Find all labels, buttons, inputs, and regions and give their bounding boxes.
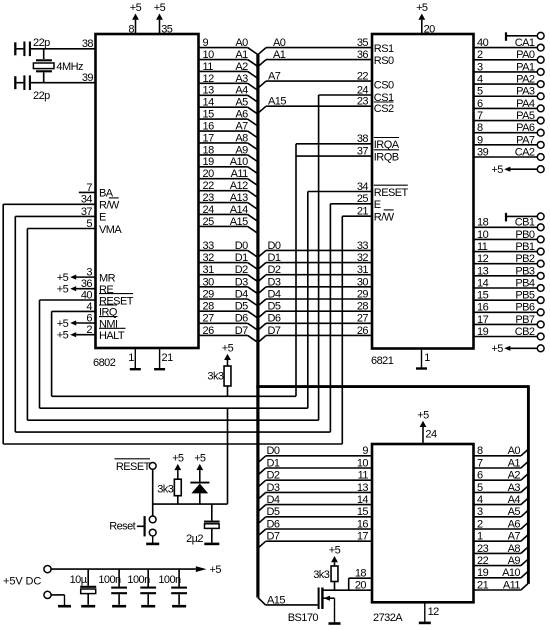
6802 pin 20 A11 <box>199 168 258 186</box>
CA1 input contact stub <box>506 32 544 41</box>
svg-text:A11: A11 <box>503 579 521 591</box>
6802 pin 16 A7 <box>199 120 258 138</box>
CPU 6802 U1 <box>93 34 199 369</box>
6802 pin 12 A3 <box>199 73 258 91</box>
svg-text:+5: +5 <box>222 342 234 354</box>
svg-text:D5: D5 <box>235 301 248 313</box>
2732A pin 2 A6 <box>474 518 528 530</box>
svg-text:8: 8 <box>477 445 483 457</box>
svg-text:+5: +5 <box>329 545 341 557</box>
2732A pin 15 D5 <box>258 506 372 524</box>
6802 pin 24 A14 <box>199 204 258 222</box>
2732A pin 22 A9 <box>474 555 528 567</box>
svg-text:R/W: R/W <box>99 200 120 212</box>
svg-text:PB3: PB3 <box>515 265 535 277</box>
6802 pin 1 ground <box>128 349 141 369</box>
svg-text:6: 6 <box>477 98 483 110</box>
2732A pin 11 D2 <box>258 470 372 488</box>
svg-text:36: 36 <box>357 49 369 61</box>
port B +5 terminal <box>491 343 544 355</box>
2732A pin 17 D7 <box>258 531 372 549</box>
svg-text:1: 1 <box>128 352 134 364</box>
svg-text:36: 36 <box>81 278 93 290</box>
address bus branch to EPROM (thick) <box>256 385 528 388</box>
svg-text:6: 6 <box>477 470 483 482</box>
capacitor C3 2u2 <box>186 504 220 545</box>
svg-text:15: 15 <box>357 506 369 518</box>
svg-text:CS0: CS0 <box>374 79 394 91</box>
svg-text:PA3: PA3 <box>516 86 535 98</box>
6802 pin 36 RE +5 <box>57 278 114 296</box>
svg-text:19: 19 <box>203 156 215 168</box>
svg-text:16: 16 <box>203 120 215 132</box>
+5 rail wire <box>51 568 196 570</box>
svg-text:4: 4 <box>477 74 483 86</box>
6821 pin 25 E <box>330 193 380 211</box>
6802 pin 10 A1 <box>199 49 258 67</box>
6821 pin 38 IRQA <box>296 133 400 151</box>
ground for C4 <box>81 605 95 608</box>
ground for C6 <box>141 605 155 608</box>
ground for C3 <box>204 543 219 546</box>
svg-text:34: 34 <box>81 194 93 206</box>
svg-text:9: 9 <box>477 134 483 146</box>
2732A pin 7 A1 <box>474 457 528 469</box>
pushbutton S1 Reset <box>109 516 156 536</box>
svg-text:27: 27 <box>357 313 369 325</box>
6802 pin 8 Vcc +5 <box>128 2 141 36</box>
svg-text:D1: D1 <box>268 252 281 264</box>
svg-text:3k3: 3k3 <box>157 484 174 496</box>
6802 pin 28 D5 <box>199 301 258 319</box>
svg-text:19: 19 <box>477 567 489 579</box>
svg-text:10: 10 <box>203 49 215 61</box>
svg-text:14: 14 <box>357 494 369 506</box>
6802 pin 33 D0 <box>199 240 258 258</box>
svg-text:26: 26 <box>203 325 215 337</box>
6821 pin 19 CB2 <box>474 326 544 340</box>
svg-text:39: 39 <box>477 146 489 158</box>
2732A pin 9 D0 <box>258 445 372 463</box>
2732A pin 3 A5 <box>474 506 528 518</box>
6821 pin 18 CB1 <box>474 217 544 231</box>
6802 pin 11 A2 <box>199 61 258 79</box>
svg-text:PA5: PA5 <box>516 110 535 122</box>
resistor R4 3k3 EPROM select pull-up <box>313 566 338 582</box>
6821 pin 36 RS0 from A1 <box>258 49 394 67</box>
resistor R2 3k3 IRQ pull-up <box>207 366 231 386</box>
svg-text:MR: MR <box>99 272 116 284</box>
svg-text:BS170: BS170 <box>288 612 319 624</box>
svg-text:D3: D3 <box>267 482 280 494</box>
svg-text:11: 11 <box>477 241 488 253</box>
svg-text:21: 21 <box>477 579 489 591</box>
svg-text:29: 29 <box>203 288 215 300</box>
6821 pin 16 PB6 <box>474 302 544 316</box>
6821 pin 35 RS1 from A0 <box>258 37 394 55</box>
svg-text:31: 31 <box>203 264 215 276</box>
svg-text:30: 30 <box>203 276 215 288</box>
6821 pin 12 PB2 <box>474 253 544 267</box>
svg-text:PB2: PB2 <box>515 253 535 265</box>
svg-text:24: 24 <box>203 204 215 216</box>
svg-text:2732A: 2732A <box>373 612 403 624</box>
transistor T1 BS170 <box>288 588 335 624</box>
6821 pin 29 D4 <box>258 288 372 306</box>
RESET terminal <box>115 459 157 473</box>
6821 pin 40 CA1 <box>474 37 544 51</box>
svg-text:+5: +5 <box>416 2 428 14</box>
+5 for IRQ pull-up <box>227 360 229 366</box>
6821 pin 21 R/W <box>342 206 394 224</box>
svg-text:A2: A2 <box>508 470 521 482</box>
svg-text:PA7: PA7 <box>516 134 535 146</box>
6802 pin 7 BA stub <box>79 182 114 200</box>
svg-text:A15: A15 <box>268 96 286 108</box>
svg-text:RE: RE <box>99 284 113 296</box>
0V terminal ground <box>51 595 71 606</box>
+5 for reset pull-up <box>177 470 179 479</box>
svg-text:PB6: PB6 <box>515 302 535 314</box>
svg-text:100n: 100n <box>127 574 150 586</box>
svg-text:D6: D6 <box>268 313 281 325</box>
svg-text:11: 11 <box>358 470 369 482</box>
6802 pin 4 IRQ <box>52 301 118 319</box>
capacitor C2 22p <box>16 75 50 102</box>
svg-text:4: 4 <box>477 494 483 506</box>
wire resistor to IRQ line <box>227 386 229 396</box>
wire resistor to junction <box>177 496 179 504</box>
svg-text:10: 10 <box>357 457 369 469</box>
svg-text:1: 1 <box>477 531 483 543</box>
wire RESET terminal to junction and switch <box>152 469 154 516</box>
svg-text:A15: A15 <box>267 594 285 606</box>
svg-text:+5V DC: +5V DC <box>3 576 41 588</box>
6802 pin 30 D3 <box>199 276 258 294</box>
svg-text:7: 7 <box>477 457 483 469</box>
capacitor C7 100n <box>158 569 187 605</box>
svg-text:PB7: PB7 <box>515 314 535 326</box>
svg-text:A7: A7 <box>268 71 281 83</box>
svg-text:D7: D7 <box>268 325 281 337</box>
svg-text:CB1: CB1 <box>515 217 535 229</box>
svg-text:D0: D0 <box>235 240 248 252</box>
6802 pin 27 D6 <box>199 313 258 331</box>
svg-text:29: 29 <box>357 288 369 300</box>
6821 pin 39 CA2 <box>474 146 544 160</box>
svg-text:D1: D1 <box>235 252 248 264</box>
+5V input terminal <box>44 566 51 573</box>
6802 pin 3 MR +5 <box>57 267 116 285</box>
svg-text:13: 13 <box>477 265 489 277</box>
svg-text:+5: +5 <box>57 272 69 284</box>
2732A pin 13 D3 <box>258 482 372 500</box>
svg-text:D2: D2 <box>267 470 280 482</box>
svg-text:32: 32 <box>357 252 369 264</box>
svg-text:15: 15 <box>477 290 489 302</box>
2732A pin 5 A3 <box>474 482 528 494</box>
svg-text:33: 33 <box>203 240 215 252</box>
6802 pin 23 A13 <box>199 192 258 210</box>
svg-text:+5: +5 <box>417 409 429 421</box>
svg-text:14: 14 <box>203 97 215 109</box>
6821 pin 7 PA5 <box>474 110 544 124</box>
svg-text:A10: A10 <box>230 156 248 168</box>
svg-text:39: 39 <box>82 72 94 84</box>
wire RESET net riser to RESET loop <box>227 408 229 504</box>
6821 pin 26 D7 <box>258 325 372 343</box>
wire RESET loop <box>40 192 308 409</box>
svg-text:6821: 6821 <box>371 355 394 367</box>
2732A pin 10 D1 <box>258 457 372 475</box>
0V input terminal <box>44 591 51 598</box>
svg-text:A4: A4 <box>508 494 521 506</box>
svg-text:30: 30 <box>357 276 369 288</box>
svg-text:9: 9 <box>362 445 368 457</box>
svg-text:CA1: CA1 <box>515 37 535 49</box>
6802 pin 22 A12 <box>199 180 258 198</box>
svg-text:VMA: VMA <box>99 224 122 236</box>
ground bar for C2 <box>14 76 16 89</box>
svg-text:PB4: PB4 <box>515 277 535 289</box>
svg-text:20: 20 <box>424 24 436 36</box>
6821 pin 9 PA7 <box>474 134 544 148</box>
PIA 6821 U2 <box>371 34 474 367</box>
svg-text:28: 28 <box>357 301 369 313</box>
6821 pin 17 PB7 <box>474 314 544 328</box>
svg-text:A8: A8 <box>235 132 248 144</box>
6821 pin 27 D6 <box>258 313 372 331</box>
svg-text:A0: A0 <box>273 37 286 49</box>
svg-text:PA2: PA2 <box>516 74 535 86</box>
svg-text:A7: A7 <box>235 120 248 132</box>
svg-text:23: 23 <box>477 543 489 555</box>
svg-text:18: 18 <box>477 217 489 229</box>
svg-text:22: 22 <box>477 555 489 567</box>
BS170 source ground <box>334 598 336 623</box>
svg-text:37: 37 <box>357 146 369 158</box>
svg-text:PB0: PB0 <box>515 229 535 241</box>
svg-text:A14: A14 <box>230 204 248 216</box>
6821 pin 15 PB5 <box>474 290 544 304</box>
6821 pin 28 D5 <box>258 301 372 319</box>
A15 wire from bus to gate <box>258 594 318 606</box>
6802 pin 29 D4 <box>199 288 258 306</box>
svg-text:17: 17 <box>357 531 369 543</box>
crystal X1 4MHz <box>33 49 83 83</box>
EPROM 2732A U3 <box>372 444 474 624</box>
6802 pin 25 A15 <box>199 216 258 234</box>
svg-text:D1: D1 <box>267 457 280 469</box>
svg-text:38: 38 <box>357 133 369 145</box>
svg-text:A8: A8 <box>508 543 521 555</box>
svg-text:14: 14 <box>477 277 489 289</box>
capacitor C6 100n <box>127 569 156 605</box>
svg-text:A9: A9 <box>235 144 248 156</box>
wire resistor to drain <box>334 582 336 591</box>
2732A pin 23 A8 <box>474 543 528 555</box>
2732A pin 24 Vcc +5 <box>417 409 437 445</box>
svg-text:28: 28 <box>203 301 215 313</box>
svg-text:38: 38 <box>82 38 94 50</box>
svg-text:2µ2: 2µ2 <box>186 533 203 545</box>
capacitor C5 100n <box>98 569 127 605</box>
svg-text:A1: A1 <box>235 49 248 61</box>
svg-text:8: 8 <box>477 122 483 134</box>
svg-text:33: 33 <box>357 240 369 252</box>
svg-text:D3: D3 <box>235 276 248 288</box>
svg-text:RESET: RESET <box>374 187 409 199</box>
svg-text:2: 2 <box>477 518 483 530</box>
svg-text:26: 26 <box>357 325 369 337</box>
svg-text:10µ: 10µ <box>70 574 88 586</box>
svg-text:3k3: 3k3 <box>313 569 330 581</box>
6802 pin 35 Vcc +5 <box>154 2 173 36</box>
svg-text:7: 7 <box>86 182 92 194</box>
6802 pin 40 RESET <box>40 289 134 307</box>
wire VMA loop <box>27 95 318 420</box>
6821 pin 30 D3 <box>258 276 372 294</box>
svg-text:PA6: PA6 <box>516 122 535 134</box>
svg-text:D3: D3 <box>268 276 281 288</box>
svg-text:A0: A0 <box>508 445 521 457</box>
svg-text:35: 35 <box>161 24 173 36</box>
svg-text:A3: A3 <box>508 482 521 494</box>
resistor R1 3k3 reset pull-up <box>157 479 181 496</box>
svg-text:CB2: CB2 <box>515 326 535 338</box>
svg-text:A0: A0 <box>235 37 248 49</box>
svg-text:10: 10 <box>477 229 489 241</box>
svg-text:RS1: RS1 <box>374 43 394 55</box>
svg-text:D5: D5 <box>268 301 281 313</box>
svg-text:8: 8 <box>128 24 134 36</box>
2732A pin 1 A7 <box>474 531 528 543</box>
svg-text:3: 3 <box>477 506 483 518</box>
6802 pin 32 D1 <box>199 252 258 270</box>
svg-text:A10: A10 <box>502 567 520 579</box>
6802 pin 13 A4 <box>199 85 258 103</box>
svg-text:RESET: RESET <box>116 461 151 473</box>
svg-text:PB5: PB5 <box>515 290 535 302</box>
6802 pin 15 A6 <box>199 109 258 127</box>
6802 pin 38 XTAL wire <box>31 38 96 50</box>
svg-text:9: 9 <box>203 37 209 49</box>
6821 pin 13 PB3 <box>474 265 544 279</box>
svg-text:20: 20 <box>203 168 215 180</box>
svg-text:PA1: PA1 <box>516 61 535 73</box>
6802 pin 14 A5 <box>199 97 258 115</box>
svg-text:D6: D6 <box>267 518 280 530</box>
2732A pin 8 A0 <box>474 445 528 457</box>
svg-text:5: 5 <box>477 482 483 494</box>
svg-text:22: 22 <box>357 71 369 83</box>
6821 pin 32 D1 <box>258 252 372 270</box>
svg-text:19: 19 <box>477 326 489 338</box>
svg-text:22p: 22p <box>33 37 50 49</box>
6802 pin 21 ground <box>154 349 173 369</box>
svg-text:D6: D6 <box>235 313 248 325</box>
svg-text:D2: D2 <box>268 264 281 276</box>
svg-text:D0: D0 <box>268 240 281 252</box>
svg-text:A12: A12 <box>230 180 248 192</box>
6802 pin 31 D2 <box>199 264 258 282</box>
svg-text:A7: A7 <box>508 531 521 543</box>
svg-text:1: 1 <box>424 352 430 364</box>
svg-text:A5: A5 <box>508 506 521 518</box>
svg-text:100n: 100n <box>158 574 181 586</box>
ground for C7 <box>172 605 186 608</box>
+5 for reset diode <box>199 470 201 482</box>
svg-text:+5: +5 <box>154 2 166 14</box>
6821 pin 20 Vcc +5 <box>416 2 435 36</box>
svg-text:6802: 6802 <box>93 357 116 369</box>
svg-text:16: 16 <box>477 302 489 314</box>
svg-text:D0: D0 <box>267 445 280 457</box>
6821 pin 31 D2 <box>258 264 372 282</box>
6802 pin 34 R/W <box>3 194 120 212</box>
6802 pin 39 EXTAL wire <box>31 72 96 84</box>
6821 pin 8 PA6 <box>474 122 544 136</box>
svg-text:+5: +5 <box>194 453 206 465</box>
6821 pin 3 PA1 <box>474 61 544 75</box>
svg-text:RS0: RS0 <box>374 55 394 67</box>
svg-text:A1: A1 <box>273 49 286 61</box>
6821 pin 23 CS2 from A15 <box>258 96 394 116</box>
6802 pin 18 A9 <box>199 144 258 162</box>
6821 pin 6 PA4 <box>474 98 544 112</box>
svg-text:+5: +5 <box>491 343 503 355</box>
svg-text:5: 5 <box>86 218 92 230</box>
svg-text:+5: +5 <box>57 284 69 296</box>
6802 pin 19 A10 <box>199 156 258 174</box>
svg-text:12: 12 <box>428 606 440 618</box>
2732A pin 19 A10 <box>474 567 528 579</box>
svg-text:A5: A5 <box>235 97 248 109</box>
svg-text:+5: +5 <box>130 2 142 14</box>
svg-text:D7: D7 <box>267 531 280 543</box>
2732A pin 12 ground <box>419 603 439 623</box>
svg-text:IRQB: IRQB <box>374 151 399 163</box>
wire R/W loop <box>3 204 342 444</box>
switch ground <box>152 536 154 544</box>
svg-text:D4: D4 <box>267 494 280 506</box>
6821 pin 22 CS0 from A7 <box>258 71 394 92</box>
svg-text:R/W: R/W <box>374 212 395 224</box>
+5 rail arrow <box>196 564 222 576</box>
address/data bus vertical <box>256 55 259 598</box>
svg-text:+5: +5 <box>210 564 222 576</box>
svg-text:D2: D2 <box>235 264 248 276</box>
ground for C5 <box>112 605 126 608</box>
2732A pin 14 D4 <box>258 494 372 512</box>
svg-text:20: 20 <box>355 580 367 592</box>
svg-text:A4: A4 <box>235 85 248 97</box>
RESET junction wire <box>153 503 228 505</box>
svg-text:D4: D4 <box>235 288 248 300</box>
+5 for EPROM select pull-up <box>334 562 336 566</box>
2732A pin 4 A4 <box>474 494 528 506</box>
svg-text:PB1: PB1 <box>515 241 535 253</box>
2732A pin 16 D6 <box>258 518 372 536</box>
svg-text:D4: D4 <box>268 288 281 300</box>
6821 pin 4 PA2 <box>474 74 544 88</box>
svg-text:24: 24 <box>357 84 369 96</box>
svg-text:37: 37 <box>81 206 93 218</box>
svg-text:CA2: CA2 <box>515 146 535 158</box>
svg-text:40: 40 <box>81 289 93 301</box>
svg-text:35: 35 <box>357 37 369 49</box>
wire IRQ loop <box>52 144 296 396</box>
